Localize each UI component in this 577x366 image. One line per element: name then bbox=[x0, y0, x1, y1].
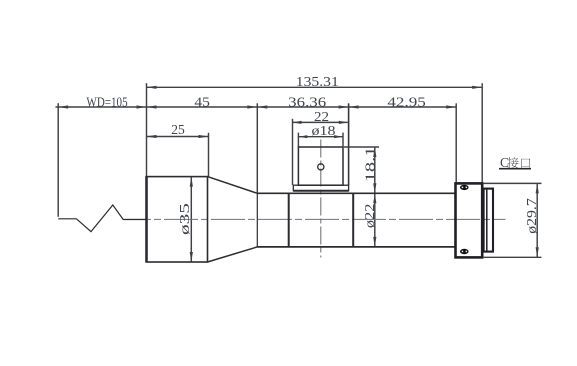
svg-text:ø29.7: ø29.7 bbox=[524, 198, 539, 234]
svg-text:WD=105: WD=105 bbox=[86, 94, 127, 109]
svg-text:ø22: ø22 bbox=[362, 204, 377, 229]
svg-text:22: 22 bbox=[314, 109, 329, 124]
svg-text:ø35: ø35 bbox=[177, 203, 192, 235]
svg-text:18.1: 18.1 bbox=[362, 147, 377, 183]
svg-text:42.95: 42.95 bbox=[387, 95, 426, 110]
svg-text:ø18: ø18 bbox=[312, 123, 336, 138]
svg-text:45: 45 bbox=[194, 95, 210, 110]
svg-text:135.31: 135.31 bbox=[296, 74, 339, 89]
svg-text:25: 25 bbox=[171, 122, 185, 137]
svg-text:36.36: 36.36 bbox=[288, 95, 326, 110]
